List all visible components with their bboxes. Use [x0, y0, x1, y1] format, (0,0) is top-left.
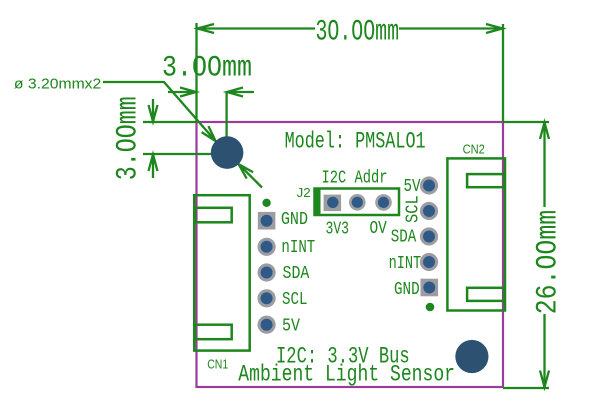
header J2 pad 2: [349, 194, 366, 211]
header J2 pad 1 square: [324, 195, 342, 212]
left pad nINT: [258, 238, 276, 256]
connector CN1 bottom latch: [195, 325, 232, 340]
svg-text:3V3: 3V3: [326, 219, 350, 239]
right pad SDA: [420, 227, 438, 245]
right pad nINT: [420, 253, 438, 271]
right pad SCL: [420, 202, 438, 220]
mounting hole bottom-right: [455, 340, 488, 373]
dimension 30.00mm extension line left: [195, 23, 197, 122]
svg-text:3O.OOmm: 3O.OOmm: [316, 15, 400, 49]
svg-text:3.OOmm: 3.OOmm: [162, 52, 252, 86]
svg-text:ø 3.20mmx2: ø 3.20mmx2: [14, 77, 101, 93]
dimension 3.00mm (left) extension bottom: [143, 153, 212, 155]
connector CN2 top latch: [467, 174, 504, 187]
dimension 26.00mm extension top: [503, 121, 549, 123]
dimension 30.00mm line right segment: [399, 27, 503, 29]
dimension 30.00mm line left segment: [197, 27, 315, 29]
svg-text:SCL: SCL: [404, 195, 424, 223]
svg-text:SDA: SDA: [391, 228, 417, 248]
dimension 30.00mm arrowhead left: [198, 24, 215, 33]
svg-text:nINT: nINT: [281, 238, 315, 258]
left pad GND square: [258, 212, 276, 230]
dimension 26.00mm line top segment: [543, 123, 545, 208]
dimension 3.00mm (top) right arrow: [227, 88, 254, 97]
svg-text:5V: 5V: [282, 316, 300, 336]
right column pin1 dot: [426, 303, 435, 312]
left pad SDA: [258, 263, 276, 281]
header J2 pin1 bar: [314, 188, 321, 217]
svg-text:I2C Addr: I2C Addr: [322, 168, 388, 188]
mounting hole top-left: [211, 136, 244, 169]
svg-text:5V: 5V: [404, 177, 421, 197]
connector CN2 bottom latch: [467, 288, 504, 301]
right pad 5V: [420, 176, 438, 194]
dimension 3.00mm (left) down arrow: [149, 99, 158, 122]
dimension 30.00mm arrowhead right: [486, 24, 503, 33]
svg-text:J2: J2: [297, 185, 311, 200]
dimension 3.00mm (top) left arrow: [168, 88, 196, 97]
dimension 26.00mm down arrow: [540, 371, 549, 388]
dimension 26.00mm line bottom segment: [543, 314, 545, 387]
dimension 3.00mm (top) center line to hole: [225, 92, 227, 152]
svg-text:SCL: SCL: [282, 290, 308, 310]
hole callout opposite arrow: [239, 164, 262, 187]
connector CN1 outline: [194, 195, 250, 350]
dimension 3.00mm (left) extension top: [143, 121, 197, 123]
dimension 26.00mm extension bottom: [503, 387, 549, 389]
svg-text:Model: PMSALO1: Model: PMSALO1: [285, 128, 426, 155]
svg-text:SDA: SDA: [283, 264, 310, 284]
dimension 30.00mm extension line right: [502, 24, 504, 122]
svg-text:OV: OV: [370, 219, 387, 239]
left pad 5V: [258, 316, 276, 334]
hole callout leader with arrow: [103, 82, 216, 141]
dimension 3.00mm (left) up arrow: [149, 155, 158, 179]
svg-text:CN1: CN1: [207, 357, 228, 372]
header J2 pad 3: [375, 194, 392, 211]
svg-text:nINT: nINT: [389, 254, 422, 274]
svg-text:GND: GND: [394, 280, 420, 300]
board outline: [197, 122, 504, 387]
dimension 26.00mm up arrow: [540, 123, 549, 140]
left pad SCL: [258, 289, 276, 307]
connector CN1 top latch: [195, 208, 232, 223]
svg-text:Ambient Light Sensor: Ambient Light Sensor: [238, 361, 455, 388]
connector CN2 outline: [447, 158, 505, 310]
svg-text:26.OOmm: 26.OOmm: [532, 210, 566, 315]
header J2 outline: [315, 189, 400, 216]
svg-text:GND: GND: [281, 210, 308, 230]
svg-text:3.OOmm: 3.OOmm: [112, 96, 146, 180]
left column pin1 dot: [262, 199, 270, 207]
svg-text:CN2: CN2: [463, 141, 485, 156]
right pad GND square: [421, 279, 439, 297]
